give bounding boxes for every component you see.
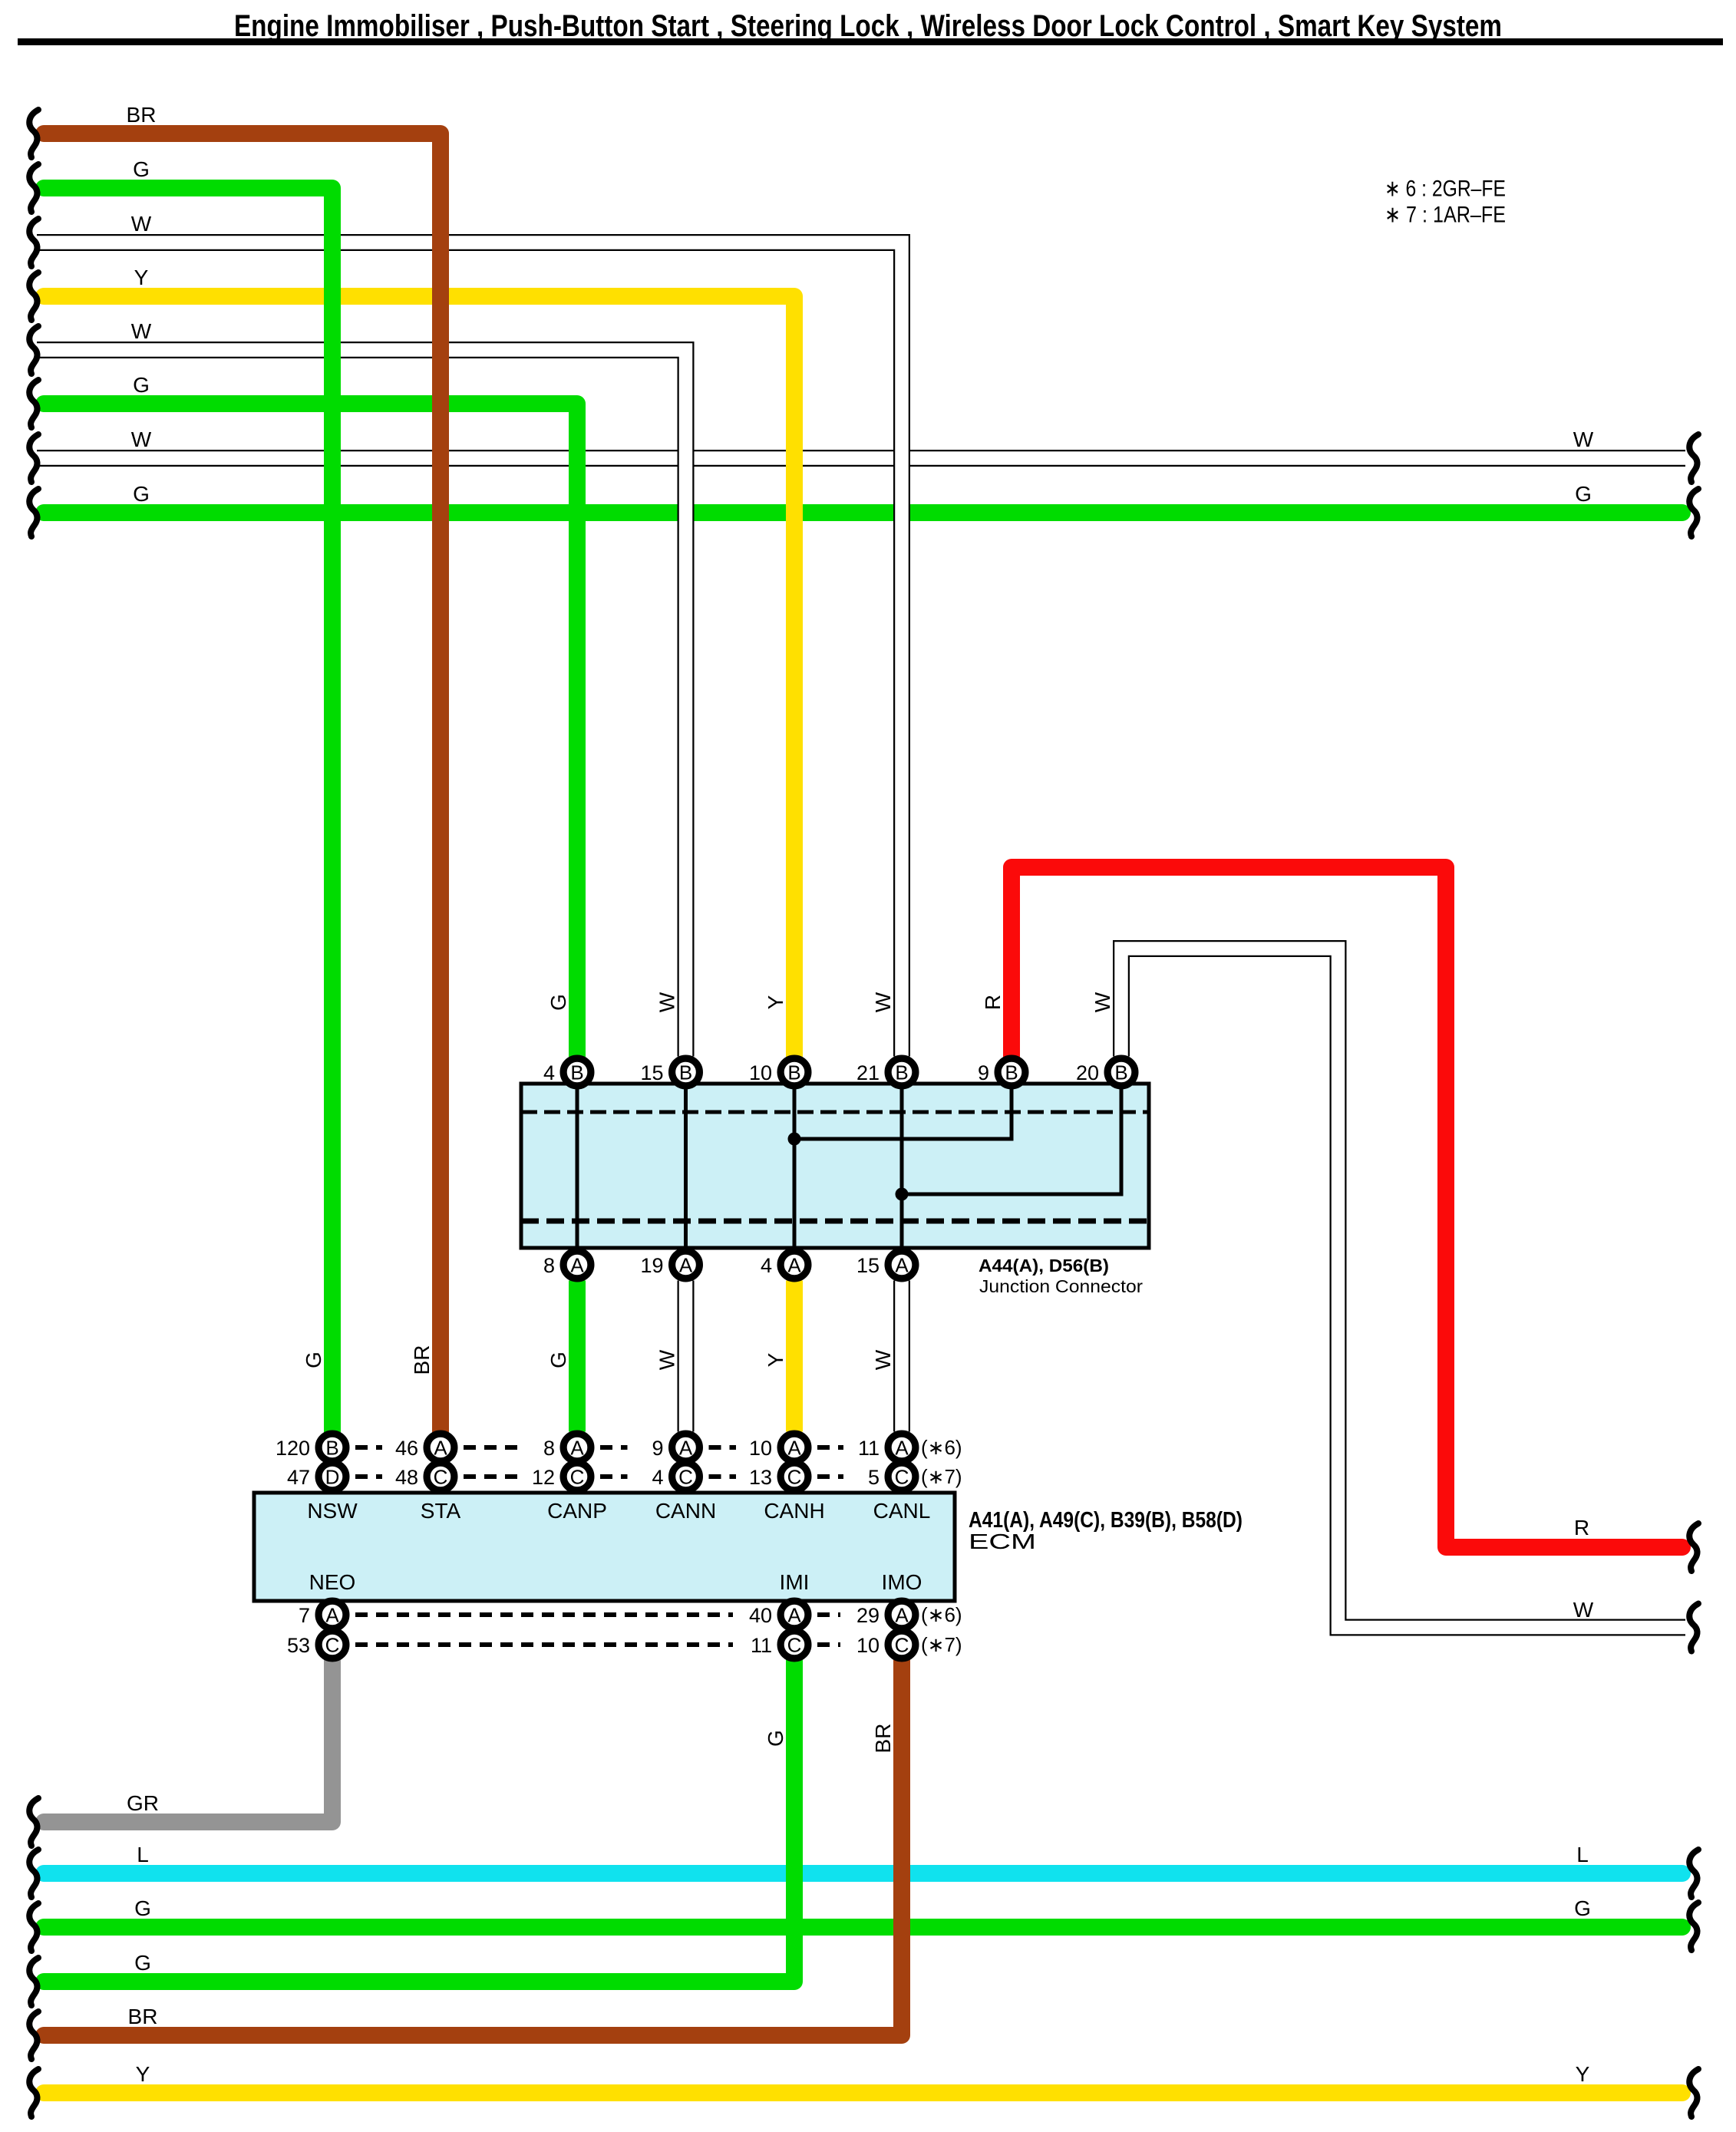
svg-text:Engine Immobiliser , Push-Butt: Engine Immobiliser , Push-Button Start ,… (234, 9, 1502, 43)
svg-text:W: W (871, 1349, 895, 1370)
svg-text:C: C (895, 1466, 909, 1489)
ECM pin C10 (856, 1631, 916, 1658)
svg-text:B: B (570, 1061, 583, 1084)
title: diagram heading (234, 9, 1502, 43)
svg-text:4: 4 (761, 1254, 772, 1277)
junction pin 21B (856, 1058, 916, 1086)
svg-text:46: 46 (395, 1437, 418, 1460)
svg-text:4: 4 (652, 1466, 663, 1489)
ECM pin B120 (276, 1434, 346, 1461)
wire Y row4 yellow to junction pin 10B (44, 296, 794, 1057)
svg-text:C: C (895, 1634, 909, 1657)
ECM pin A10 (749, 1434, 808, 1461)
junction pin 15B (640, 1058, 699, 1086)
ECM label STA (421, 1499, 461, 1523)
svg-text:G: G (133, 482, 150, 506)
label G bottom left wire y2582 (134, 1951, 151, 1975)
ECM pin A11 (858, 1434, 916, 1461)
junction pin 9B (978, 1058, 1025, 1086)
svg-text:B: B (787, 1061, 800, 1084)
wire G row8 green full-width (44, 504, 1682, 521)
ECM label CANH (764, 1499, 824, 1523)
label G rotated above junction x752 (546, 994, 570, 1011)
svg-text:A: A (787, 1254, 801, 1277)
note *7 engine type (1385, 203, 1506, 228)
cut squiggle left y456 (29, 326, 38, 374)
svg-text:(∗7): (∗7) (921, 1465, 962, 1488)
svg-text:G: G (546, 994, 570, 1011)
wire G green junction 8A to ECM CANP (569, 1281, 586, 1432)
cut squiggle right y668 (1689, 489, 1698, 536)
ECM pin C5 (868, 1463, 916, 1490)
svg-text:G: G (546, 1351, 570, 1368)
svg-text:R: R (1574, 1516, 1589, 1540)
cut squiggle right y2016 (1689, 1523, 1698, 1571)
ECM pin D47 (287, 1463, 346, 1490)
ECM connector name (969, 1508, 1243, 1533)
svg-text:A: A (434, 1437, 447, 1460)
svg-text:BR: BR (410, 1345, 434, 1375)
svg-text:15: 15 (856, 1254, 880, 1277)
svg-text:Y: Y (764, 1352, 787, 1367)
svg-text:L: L (137, 1843, 149, 1866)
svg-text:G: G (134, 1951, 151, 1975)
svg-text:A: A (679, 1254, 693, 1277)
svg-text:C: C (787, 1466, 802, 1489)
ECM note (*6) row1 (921, 1436, 962, 1459)
label BR bottom left wire y2652 (128, 2005, 158, 2028)
svg-text:12: 12 (532, 1466, 555, 1489)
svg-text:∗ 7 : 1AR–FE: ∗ 7 : 1AR–FE (1385, 203, 1506, 228)
label G right row8 (1575, 482, 1592, 506)
ECM label NSW (307, 1499, 358, 1523)
cut squiggle bottom left y2511 (29, 1903, 38, 1951)
cut squiggle right y2510 (1689, 1903, 1698, 1950)
label GR bottom left wire y2374 (127, 1791, 159, 1815)
label W left wire y316 (131, 212, 152, 236)
svg-text:IMI: IMI (780, 1570, 810, 1594)
junction internal wire col 15B-19A (684, 1086, 688, 1249)
svg-text:C: C (787, 1634, 802, 1657)
svg-text:29: 29 (856, 1604, 880, 1627)
cut squiggle right y2441 (1689, 1850, 1698, 1897)
svg-text:A: A (570, 1254, 584, 1277)
ECM dashes row bottom A (355, 1612, 840, 1617)
svg-text:A: A (895, 1254, 909, 1277)
svg-text:B: B (1005, 1061, 1018, 1084)
ECM dashes row bottom C (355, 1642, 840, 1647)
cut squiggle left y526 (29, 380, 38, 427)
svg-text:A: A (787, 1437, 801, 1460)
svg-text:G: G (302, 1351, 325, 1368)
wire BR brown bottom to ECM IMO (44, 1661, 902, 2036)
wire W row3 white to junction pin 21B (37, 243, 902, 1057)
cut squiggle left y245 (29, 164, 38, 212)
svg-text:G: G (1575, 482, 1592, 506)
svg-text:B: B (895, 1061, 908, 1084)
svg-text:(∗6): (∗6) (921, 1603, 962, 1626)
svg-text:B: B (325, 1437, 338, 1460)
svg-text:W: W (131, 427, 152, 451)
svg-text:9: 9 (978, 1061, 989, 1084)
label W rotated above junction x1461 (1091, 992, 1114, 1012)
svg-text:W: W (1573, 427, 1594, 451)
ECM label CANP (547, 1499, 607, 1523)
svg-text:GR: GR (127, 1791, 159, 1815)
label G rotated below ECM x1035 (764, 1730, 787, 1747)
title underline rule (18, 38, 1723, 45)
ECM pin C13 (749, 1463, 808, 1490)
ECM box (254, 1493, 955, 1601)
svg-text:G: G (764, 1730, 787, 1747)
junction bus dashed line top (521, 1111, 1149, 1114)
svg-text:4: 4 (543, 1061, 555, 1084)
svg-text:9: 9 (652, 1437, 663, 1460)
junction pin 19A (640, 1251, 699, 1279)
cut squiggle left y668 (29, 489, 38, 536)
ECM name (969, 1530, 1036, 1553)
cut squiggle left y174 (29, 110, 38, 157)
wire R red from right edge to junction pin 9B (1012, 867, 1682, 1547)
junction connector box A44/D56 (521, 1084, 1149, 1248)
label W right row7 (1573, 427, 1594, 451)
junction connector name (979, 1256, 1109, 1276)
wire Y yellow junction 4A to ECM CANH (786, 1281, 803, 1432)
svg-text:A: A (325, 1604, 339, 1627)
svg-text:CANH: CANH (764, 1499, 824, 1523)
svg-text:15: 15 (640, 1061, 663, 1084)
label W rotated above junction x1175 (871, 992, 895, 1012)
junction connector type (979, 1276, 1143, 1296)
junction internal wire 9B to node (794, 1086, 1012, 1139)
svg-text:8: 8 (543, 1254, 555, 1277)
svg-text:C: C (678, 1466, 693, 1489)
svg-text:G: G (133, 373, 150, 397)
svg-text:11: 11 (858, 1437, 880, 1460)
label Y bottom right (1576, 2062, 1590, 2086)
ECM pin C48 (395, 1463, 454, 1490)
ECM dashes row B-A (355, 1445, 843, 1450)
svg-text:W: W (1091, 992, 1114, 1012)
svg-text:21: 21 (856, 1061, 880, 1084)
label W rotated above ECM x1175 (871, 1349, 895, 1370)
svg-text:A: A (895, 1604, 909, 1627)
ECM pin A7 (299, 1601, 346, 1629)
wire W row7 white full-width (37, 450, 1685, 467)
ECM label IMI (780, 1570, 810, 1594)
ECM pin C12 (532, 1463, 591, 1490)
svg-text:∗ 6 : 2GR–FE: ∗ 6 : 2GR–FE (1385, 177, 1506, 202)
svg-text:W: W (1573, 1598, 1594, 1622)
svg-text:Y: Y (1576, 2062, 1590, 2086)
svg-text:A: A (679, 1437, 693, 1460)
wire W row5 white to junction pin 15B (37, 350, 686, 1057)
ECM pin C11 (751, 1631, 808, 1658)
svg-text:10: 10 (749, 1061, 772, 1084)
svg-text:47: 47 (287, 1466, 310, 1489)
label W right lower (1573, 1598, 1594, 1622)
label G left wire y526 (133, 373, 150, 397)
svg-text:IMO: IMO (882, 1570, 922, 1594)
label R rotated above junction x1318 (981, 995, 1005, 1010)
svg-text:7: 7 (299, 1604, 310, 1627)
label L bottom left wire y2441 (137, 1843, 149, 1866)
svg-text:13: 13 (749, 1466, 772, 1489)
junction pin 10B (749, 1058, 808, 1086)
ECM pin A8 (543, 1434, 591, 1461)
wire GR gray from left edge to ECM NEO (44, 1661, 332, 1823)
svg-text:10: 10 (749, 1437, 772, 1460)
label R right (1574, 1516, 1589, 1540)
ECM pin A46 (395, 1434, 454, 1461)
junction internal wire 20B to node (902, 1086, 1121, 1194)
label G left wire y668 (133, 482, 150, 506)
ECM pin C53 (287, 1631, 346, 1658)
svg-text:G: G (134, 1896, 151, 1920)
label Y left wire y386 (134, 266, 149, 289)
label BR rotated above ECM x574 (410, 1345, 434, 1375)
junction pin 15A (856, 1251, 916, 1279)
svg-text:Y: Y (136, 2062, 150, 2086)
junction pin 20B (1076, 1058, 1135, 1086)
ECM pin A9 (652, 1434, 699, 1461)
junction pin 8A (543, 1251, 591, 1279)
label W rotated above junction x893.5 (655, 992, 678, 1012)
ECM note (*7) row4 (921, 1633, 962, 1656)
cut squiggle bottom left y2441 (29, 1850, 38, 1897)
wire G green bottom to ECM IMI (44, 1661, 794, 1982)
svg-text:BR: BR (128, 2005, 158, 2028)
svg-text:Y: Y (134, 266, 149, 289)
junction internal wire col 4B-8A (576, 1086, 579, 1249)
svg-text:B: B (679, 1061, 692, 1084)
junction node dot on 10B column (788, 1133, 801, 1146)
ECM label NEO (309, 1570, 356, 1594)
label Y rotated above junction x1035 (764, 995, 787, 1009)
ECM label IMO (882, 1570, 922, 1594)
svg-text:NSW: NSW (307, 1499, 358, 1523)
wire W white junction 15A to ECM CANL (893, 1281, 910, 1432)
wire L cyan full-width bottom (44, 1865, 1682, 1882)
label G bottom left wire y2511 (134, 1896, 151, 1920)
wire G green bottom full-width (44, 1919, 1682, 1936)
ECM label CANL (873, 1499, 931, 1523)
svg-text:48: 48 (395, 1466, 418, 1489)
wire W white junction 19A to ECM CANN (678, 1281, 695, 1432)
wire G row2 green to ECM pin B120 (44, 188, 332, 1432)
ECM note (*6) row3 (921, 1603, 962, 1626)
wire G row6 green to junction pin 4B (44, 404, 577, 1057)
note *6 engine type (1385, 177, 1506, 202)
junction pin 4B (543, 1058, 591, 1086)
svg-text:BR: BR (127, 103, 157, 127)
label W left wire y456 (131, 319, 152, 343)
cut squiggle bottom left y2727 (29, 2069, 38, 2117)
label W left wire y597 (131, 427, 152, 451)
svg-text:10: 10 (856, 1634, 880, 1657)
wire Y yellow bottom full-width (44, 2084, 1682, 2101)
label L bottom right (1576, 1843, 1589, 1866)
svg-text:D: D (325, 1466, 340, 1489)
svg-text:CANP: CANP (547, 1499, 607, 1523)
svg-text:W: W (131, 212, 152, 236)
cut squiggle left y316 (29, 219, 38, 266)
svg-text:53: 53 (287, 1634, 310, 1657)
svg-text:Junction Connector: Junction Connector (979, 1276, 1143, 1296)
ECM label CANN (655, 1499, 716, 1523)
label Y bottom left wire y2727 (136, 2062, 150, 2086)
junction internal wire col 10B-4A (793, 1086, 797, 1249)
svg-text:40: 40 (749, 1604, 772, 1627)
svg-text:STA: STA (421, 1499, 461, 1523)
svg-text:CANL: CANL (873, 1499, 931, 1523)
label BR rotated below ECM x1175 (871, 1724, 895, 1754)
label BR left wire y174 (127, 103, 157, 127)
label Y rotated above ECM x1035 (764, 1352, 787, 1367)
svg-text:L: L (1576, 1843, 1589, 1866)
label G rotated above ECM x433 (302, 1351, 325, 1368)
cut squiggle left y386 (29, 272, 38, 320)
svg-text:(∗7): (∗7) (921, 1633, 962, 1656)
wire W white from right edge to junction pin 20B (1121, 949, 1685, 1628)
svg-text:BR: BR (871, 1724, 895, 1754)
label G rotated above ECM x752 (546, 1351, 570, 1368)
junction bus dashed line bottom (521, 1219, 1149, 1224)
svg-text:R: R (981, 995, 1005, 1010)
svg-text:20: 20 (1076, 1061, 1099, 1084)
svg-text:W: W (655, 992, 678, 1012)
svg-text:B: B (1114, 1061, 1127, 1084)
svg-text:8: 8 (543, 1437, 555, 1460)
svg-text:120: 120 (276, 1437, 310, 1460)
svg-text:11: 11 (751, 1634, 772, 1657)
junction node dot on 21B column (896, 1188, 909, 1201)
svg-text:A: A (787, 1604, 801, 1627)
cut squiggle left y597 (29, 434, 38, 482)
svg-text:C: C (325, 1634, 340, 1657)
label G left wire y245 (133, 157, 150, 181)
cut squiggle right y2120.5 (1689, 1604, 1698, 1652)
svg-text:W: W (655, 1349, 678, 1370)
ECM pin C4 (652, 1463, 699, 1490)
svg-text:A: A (895, 1437, 909, 1460)
ECM note (*7) row2 (921, 1465, 962, 1488)
svg-text:W: W (871, 992, 895, 1012)
cut squiggle right y597 (1689, 434, 1698, 482)
junction internal wire col 21B-15A (900, 1086, 904, 1249)
svg-text:W: W (131, 319, 152, 343)
svg-text:19: 19 (640, 1254, 663, 1277)
label G bottom right (1574, 1896, 1591, 1920)
junction pin 4A (761, 1251, 808, 1279)
svg-text:C: C (434, 1466, 448, 1489)
svg-text:A44(A), D56(B): A44(A), D56(B) (979, 1256, 1109, 1276)
svg-text:G: G (133, 157, 150, 181)
cut squiggle bottom left y2652 (29, 2012, 38, 2059)
svg-text:CANN: CANN (655, 1499, 716, 1523)
ECM pin A40 (749, 1601, 808, 1629)
svg-text:(∗6): (∗6) (921, 1436, 962, 1459)
ECM pin A29 (856, 1601, 916, 1629)
cut squiggle right y2727 (1689, 2069, 1698, 2117)
label W rotated above ECM x893.5 (655, 1349, 678, 1370)
svg-text:ECM: ECM (969, 1530, 1036, 1553)
svg-text:NEO: NEO (309, 1570, 356, 1594)
svg-text:A: A (570, 1437, 584, 1460)
svg-text:C: C (570, 1466, 585, 1489)
ECM dashes row D-C (355, 1474, 843, 1479)
wire BR row1 brown to ECM pin A46 (44, 134, 441, 1432)
cut squiggle bottom left y2582 (29, 1958, 38, 2005)
svg-text:G: G (1574, 1896, 1591, 1920)
svg-text:Y: Y (764, 995, 787, 1009)
cut squiggle bottom left y2374 (29, 1798, 38, 1846)
svg-text:5: 5 (868, 1466, 880, 1489)
